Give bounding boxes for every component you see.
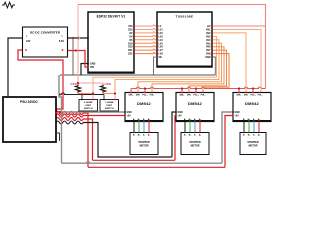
- wire gray ground left drop to bottom bus and riser to driver U4 GND pin: [59, 75, 62, 163]
- svg-text:VIN: VIN: [90, 66, 94, 69]
- wire red DC-DC 5.0V output to ESP32 VIN: [63, 51, 89, 68]
- stepper motor M3: [240, 133, 266, 155]
- svg-text:+5V: +5V: [127, 116, 132, 118]
- wire orange GPIO ESP32 to TXS LV5: [134, 42, 157, 43]
- svg-text:PUL+: PUL+: [250, 95, 256, 97]
- svg-text:LIMIT: LIMIT: [106, 105, 112, 107]
- wire pink 5V riser from DC-DC output to top rail: [78, 5, 80, 51]
- wire red +24V C to bottom bus then riser to driver U3 +5V pin: [83, 119, 93, 160]
- svg-text:X HOME: X HOME: [84, 102, 93, 104]
- svg-text:PUL-: PUL-: [150, 95, 155, 97]
- svg-text:DIR-: DIR-: [136, 95, 141, 97]
- svg-text:PUL-: PUL-: [258, 95, 263, 97]
- stepper motor M2: [181, 133, 209, 155]
- resistor R2 4.7k pull-up: [100, 85, 105, 92]
- wire orange GPIO ESP32 to TXS LV1: [134, 28, 157, 29]
- svg-text:STEPPER: STEPPER: [247, 141, 258, 144]
- wire orange HV8 to driver U3 PUL-: [203, 54, 229, 93]
- wire red +24V wavy A from PSU: [56, 112, 83, 115]
- wire red 3V3 ESP32 to TXS LV: [134, 25, 157, 26]
- svg-text:Y HOME: Y HOME: [105, 102, 114, 104]
- svg-text:STEPPER: STEPPER: [138, 141, 149, 144]
- svg-text:PUL+: PUL+: [193, 95, 199, 97]
- svg-text:DIR+: DIR+: [180, 95, 186, 97]
- svg-text:GND: GND: [127, 112, 132, 114]
- svg-text:DIR-: DIR-: [187, 95, 192, 97]
- wire gray ground bus mid: [60, 74, 216, 76]
- TXS0108E level shifter U6: [157, 12, 212, 67]
- svg-text:+5V: +5V: [178, 116, 183, 118]
- wire resistor R2 bottom to limit switch S3 signal: [103, 92, 115, 94]
- stepper driver U4 DM542: [233, 93, 271, 122]
- svg-text:PSU 24VDC: PSU 24VDC: [20, 100, 38, 104]
- svg-text:MOTOR: MOTOR: [191, 144, 200, 147]
- junction dots: [72, 37, 74, 39]
- svg-text:DIR-: DIR-: [244, 95, 249, 97]
- wire top rail 5V across top and down right side: [78, 5, 266, 89]
- svg-text:PUL+: PUL+: [142, 95, 148, 97]
- wire black ESP32 GND pin to ground bus: [81, 64, 88, 76]
- wire orange GPIO ESP32 to TXS LV3: [134, 35, 157, 36]
- wire orange GPIO ESP32 to TXS LV7: [134, 49, 157, 50]
- wire resistor R1 bottom to limit switch S2 signal: [78, 92, 93, 94]
- wire orange GPIO ESP32 to TXS LV8: [134, 53, 157, 54]
- wire stepper motor leads: [133, 122, 135, 133]
- wire orange GPIO ESP32 to TXS LV6: [134, 46, 157, 47]
- limit switch S2: [79, 100, 98, 112]
- wire orange HV4 to limit switch S3: [115, 40, 219, 100]
- wire red +5V rail feeding DIR+/PUL+ pins of drivers: [131, 87, 266, 89]
- wire orange HV5 to driver U2 DIR-: [138, 43, 222, 92]
- svg-text:+5V: +5V: [235, 116, 240, 118]
- svg-text:LIMIT: LIMIT: [85, 105, 91, 107]
- svg-text:D22: D22: [128, 53, 133, 56]
- svg-text:DM542: DM542: [137, 101, 151, 106]
- DC-DC converter module U5: [23, 27, 68, 57]
- wire orange HV3 to limit switch S2: [93, 36, 217, 99]
- stepper driver U3 DM542: [176, 93, 214, 122]
- decorative corner squiggle: [2, 2, 15, 8]
- wire red TXS0108E HV pin to 5V vertical: [212, 25, 266, 27]
- wire orange HV1 to driver U4 PUL-: [212, 29, 261, 92]
- wire black PSU ground stub to gray drop: [56, 133, 60, 141]
- limit switch S3: [100, 100, 119, 112]
- stepper driver U2 DM542: [125, 93, 163, 122]
- svg-text:5.0V: 5.0V: [59, 40, 64, 43]
- wire red +24V wavy B from PSU to driver U2 +5V pin: [56, 114, 83, 117]
- stepper motor M1: [130, 133, 158, 155]
- wire orange GPIO ESP32 to TXS LV2: [134, 32, 157, 33]
- svg-text:SWITCH: SWITCH: [105, 108, 114, 110]
- svg-text:ESP32 DEVKIT V1: ESP32 DEVKIT V1: [97, 14, 126, 18]
- svg-text:DM542: DM542: [188, 101, 202, 106]
- wire gray TXS OE pin to ground bus: [154, 57, 158, 75]
- resistor R1 4.7k pull-up: [75, 85, 80, 92]
- wire black DC-DC 24V black lead to PSU: [8, 38, 23, 97]
- PSU 24VDC power supply: [3, 97, 56, 142]
- wire orange GPIO ESP32 to TXS LV4: [134, 39, 157, 40]
- svg-text:MOTOR: MOTOR: [249, 144, 258, 147]
- svg-text:DIR+: DIR+: [129, 95, 135, 97]
- svg-text:24V: 24V: [26, 40, 31, 43]
- wire gray ground stub to driver U2 GND pin: [62, 111, 126, 113]
- svg-text:DC-DC CONVERTER: DC-DC CONVERTER: [30, 30, 61, 34]
- resistor terminal dots: [77, 84, 79, 86]
- svg-text:GND: GND: [205, 56, 211, 59]
- wire red +24V A continues to bottom bus then riser to driver U4 +5V pin: [83, 113, 88, 167]
- wire gray drop from DC-DC GND node to ground bus: [72, 38, 74, 75]
- svg-text:DIR+: DIR+: [237, 95, 243, 97]
- wire black limit switch ground chain: [59, 93, 104, 95]
- svg-text:SWITCH: SWITCH: [84, 108, 93, 110]
- svg-text:STEPPER: STEPPER: [189, 141, 200, 144]
- wire red +24V wavy C from PSU: [56, 118, 83, 121]
- wire black PSU ground wavy: [56, 121, 83, 124]
- wire orange HV6 to driver U2 PUL-: [152, 47, 224, 93]
- svg-text:4.7kΩ: 4.7kΩ: [104, 83, 111, 86]
- wire orange HV2 to driver U4 DIR-: [212, 33, 246, 93]
- wire red rail drops to driver DIR+ PUL+ pins: [130, 89, 132, 93]
- wire 24V input red: PSU to DC-DC converter 24V pin: [18, 50, 63, 113]
- svg-text:GND: GND: [235, 112, 240, 114]
- wire black ground to bottom bus then riser to driver U3 GND pin: [83, 123, 172, 158]
- wire orange HV7 to driver U3 DIR-: [189, 50, 227, 92]
- svg-text:OE: OE: [159, 56, 163, 59]
- wire black DC-DC GND to ESP32: [68, 37, 89, 39]
- svg-text:TXS0108E: TXS0108E: [176, 15, 194, 19]
- wire gray ground: TXS0108E GND pin to bus: [212, 57, 216, 75]
- wire pink 5V to pull-up resistors: [78, 51, 103, 85]
- svg-text:PUL-: PUL-: [201, 95, 206, 97]
- svg-text:MOTOR: MOTOR: [140, 144, 149, 147]
- svg-text:DM542: DM542: [245, 101, 259, 106]
- ESP32 DEVKIT V1 module U1: [88, 12, 134, 73]
- svg-text:GND: GND: [178, 112, 183, 114]
- svg-text:4.7kΩ: 4.7kΩ: [70, 83, 77, 86]
